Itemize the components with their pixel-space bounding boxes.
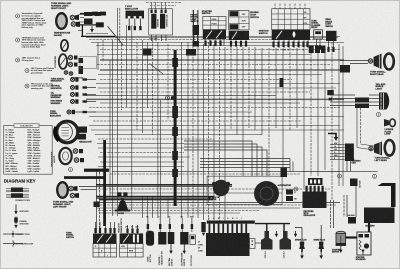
- engine unit outline box: [207, 176, 282, 204]
- alternator leads: [286, 190, 297, 202]
- right rear connector: [340, 65, 350, 73]
- high beam warning indicator: [51, 99, 96, 105]
- ignition coil wires up: [146, 3, 182, 10]
- wire harness vertical runs: [98, 8, 343, 221]
- thick harness elbow horizontal: [84, 169, 109, 172]
- right harness connectors row: [309, 46, 326, 54]
- switch leg pin stubs: [204, 41, 334, 53]
- ignition coil bottom leads: [149, 35, 166, 41]
- plug cap connector 1: [261, 231, 273, 258]
- spark plug 2: [318, 225, 324, 259]
- warning unit wires labels: [330, 143, 345, 160]
- neutral indicator: [51, 85, 96, 90]
- speedometer: [59, 148, 71, 164]
- turn signal indicator: [51, 77, 96, 82]
- clutch switch connector: [190, 235, 196, 266]
- tail and brake light: [379, 93, 389, 110]
- headlight dimmer switch pins: [125, 225, 139, 233]
- spark plug labels: [295, 239, 326, 242]
- neutral switch: [168, 232, 175, 266]
- key ground symbol: [14, 205, 29, 215]
- CDI spark unit box: [206, 233, 250, 256]
- note ref circle 1 right: [373, 174, 377, 178]
- bent arrow into warning unit: [328, 134, 336, 139]
- note 4: [25, 67, 55, 75]
- note 1: [16, 12, 47, 29]
- front brake switch feed pair: [194, 10, 198, 42]
- license plate light: [384, 119, 395, 127]
- harness connector lump 1: [172, 106, 178, 118]
- nested harness corner bends: [184, 141, 267, 176]
- starter switch grid: [203, 17, 226, 30]
- ignition pulse wire bus: [255, 224, 290, 231]
- alternator lead wires: [200, 159, 293, 173]
- doubled harness lines: [86, 37, 344, 100]
- thick battery cable: [378, 183, 396, 207]
- ignition coil top pins: [151, 10, 167, 14]
- CDI right connector: [250, 239, 263, 249]
- headlight dimmer switch: [120, 233, 144, 257]
- voltmeter gauge: [59, 54, 67, 69]
- speedometer bulbs: [73, 149, 84, 163]
- spark unit connector top: [281, 168, 288, 178]
- vertical dashed pair right of cluster: [119, 8, 121, 44]
- oil pressure warning indicator: [51, 92, 96, 99]
- lamp cluster ground arrow: [90, 26, 94, 33]
- headlight: [55, 121, 92, 143]
- pick-up coil: [208, 180, 230, 201]
- temperature gauge: [61, 40, 68, 51]
- starter cable: [346, 223, 369, 238]
- turn signal right front lamp: [56, 13, 67, 29]
- turn signal right rear cone: [368, 54, 381, 70]
- scan noise overlay: [0, 0, 1, 1]
- ignition coil 2: [160, 14, 168, 29]
- diagonal wire near coils: [150, 64, 164, 75]
- key no-connection symbol: [3, 240, 34, 247]
- lamp cluster link wires: [78, 15, 84, 31]
- turn signal right rear lens: [384, 54, 394, 70]
- harness connector lump 3: [172, 151, 178, 160]
- alternator: [254, 181, 298, 206]
- left front harness lump: [94, 202, 100, 208]
- diagonal harness wire: [108, 26, 124, 45]
- wire color key table: [4, 124, 53, 174]
- left connector column stubs: [83, 78, 88, 113]
- wire harness horizontal runs upper band: [86, 34, 344, 100]
- wires to right rear turn signal: [340, 61, 368, 64]
- turn signal left front lamp: [57, 182, 68, 198]
- starter headlight switch: [158, 232, 166, 265]
- note ref circle near fuse: [338, 174, 342, 178]
- turn signal switch: [93, 234, 117, 258]
- small indicator bulbs pair: [64, 71, 84, 80]
- front brake light switch: [193, 25, 200, 42]
- CDI left stub: [201, 222, 205, 236]
- engine stop switch connector: [229, 31, 249, 47]
- meter connector outline box: [80, 57, 97, 69]
- lower pin feed segments: [142, 196, 168, 218]
- 7 volt regulator: [126, 11, 145, 31]
- main fuse: [347, 214, 356, 224]
- key frame ground symbol: [14, 217, 29, 229]
- tail connector drop wires: [357, 108, 374, 150]
- meter connector blocks: [79, 58, 84, 74]
- junction connector block: [171, 96, 174, 99]
- bottom pin stub labels: [146, 217, 194, 233]
- engine stop switch grid: [229, 11, 249, 30]
- left front lamp feed wires: [79, 170, 100, 233]
- harness connector lump 2: [172, 127, 178, 136]
- voltmeter bulbs: [68, 55, 77, 66]
- wire harness horizontal runs lower-mid band: [96, 208, 300, 213]
- note 2: [16, 36, 47, 48]
- ignition switch lead labels: [273, 49, 305, 52]
- coil area connector lump: [143, 49, 152, 56]
- ground arrows near plug caps: [275, 231, 298, 237]
- starter motor: [332, 231, 346, 253]
- ignition switch grid: [272, 9, 310, 30]
- wire harness horizontal runs middle bands: [89, 103, 344, 205]
- horn button: [146, 231, 154, 262]
- CDI spark unit pin bar: [207, 221, 255, 234]
- 7A fuse: [350, 179, 362, 189]
- rectifier pins: [306, 186, 324, 192]
- starter solenoid: [356, 232, 371, 261]
- turn signal left front bulbs: [69, 186, 79, 198]
- note 3: [16, 57, 41, 62]
- key connectors symbol: [6, 188, 30, 202]
- tail feed connector lumps: [327, 90, 334, 101]
- turn signal left rear cone: [369, 142, 382, 156]
- spark plug 1: [295, 228, 305, 260]
- warning unit: [345, 144, 361, 172]
- turn signal flasher relay: [314, 30, 323, 45]
- note 5: [25, 82, 54, 90]
- harness connector lump 4: [172, 169, 178, 177]
- ignition switch top stubs: [275, 4, 305, 9]
- trunk upper lump: [172, 58, 178, 67]
- tail light connectors: [355, 98, 369, 109]
- CDI left labels: [198, 242, 204, 253]
- rectifier with regulator: [303, 192, 327, 218]
- plug cap connector 2: [280, 231, 292, 258]
- ignition coils outline box: [149, 9, 173, 35]
- thick harness trunk vertical center: [174, 50, 177, 206]
- harness lump right: [280, 78, 284, 87]
- thick lamp trunk bar: [64, 176, 105, 179]
- turn signal right front bulbs: [70, 15, 80, 28]
- front right lamp connectors: [84, 12, 106, 28]
- CDI spark unit pin labels: [209, 218, 243, 220]
- lamp cluster thick feed wires: [80, 14, 115, 37]
- note ref circle 2 at license light: [377, 113, 381, 117]
- ignition coil 1: [151, 14, 159, 29]
- ignition switch connector: [272, 30, 310, 48]
- note ref circle 1 at speedometer: [69, 168, 73, 172]
- rear brake light switch: [326, 31, 337, 47]
- horn: [115, 192, 131, 215]
- bottom right wires: [302, 171, 378, 255]
- front brake switch connector block: [186, 49, 196, 56]
- key connection symbol: [3, 231, 30, 238]
- fuse box: [308, 178, 323, 185]
- oil pressure switch: [180, 232, 188, 266]
- turn signal indicator lower: [50, 110, 96, 118]
- turn signal left rear lens: [385, 140, 395, 156]
- turn signal switch pin labels: [94, 222, 115, 234]
- thick harness trunk vertical left: [103, 140, 106, 226]
- junction symbol: [166, 96, 170, 100]
- starter switch connector: [203, 30, 226, 46]
- battery: [364, 208, 395, 228]
- tail light wires: [330, 95, 382, 106]
